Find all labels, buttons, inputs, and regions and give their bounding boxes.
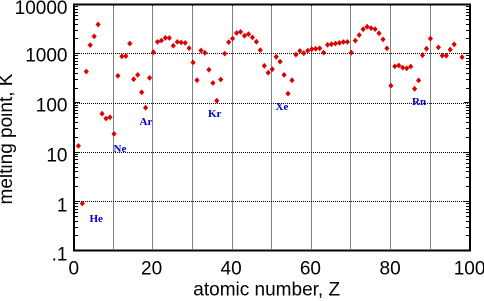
svg-text:atomic number, Z: atomic number, Z xyxy=(193,280,340,301)
svg-text:10000: 10000 xyxy=(15,0,68,19)
svg-text:melting point, K: melting point, K xyxy=(0,73,17,204)
svg-text:Xe: Xe xyxy=(276,101,289,113)
svg-text:100: 100 xyxy=(36,96,68,117)
svg-text:80: 80 xyxy=(380,258,401,279)
svg-text:.1: .1 xyxy=(52,244,68,265)
svg-text:60: 60 xyxy=(300,258,321,279)
svg-text:Kr: Kr xyxy=(208,108,222,120)
svg-text:Rn: Rn xyxy=(412,96,426,108)
svg-text:10: 10 xyxy=(46,145,67,166)
svg-text:0: 0 xyxy=(69,258,80,279)
svg-text:Ne: Ne xyxy=(114,143,127,155)
svg-text:He: He xyxy=(90,213,104,225)
svg-text:20: 20 xyxy=(141,258,162,279)
svg-text:1: 1 xyxy=(57,195,68,216)
svg-text:1000: 1000 xyxy=(25,46,67,67)
svg-text:Ar: Ar xyxy=(140,116,153,128)
svg-text:40: 40 xyxy=(221,258,242,279)
svg-text:100: 100 xyxy=(454,258,484,279)
